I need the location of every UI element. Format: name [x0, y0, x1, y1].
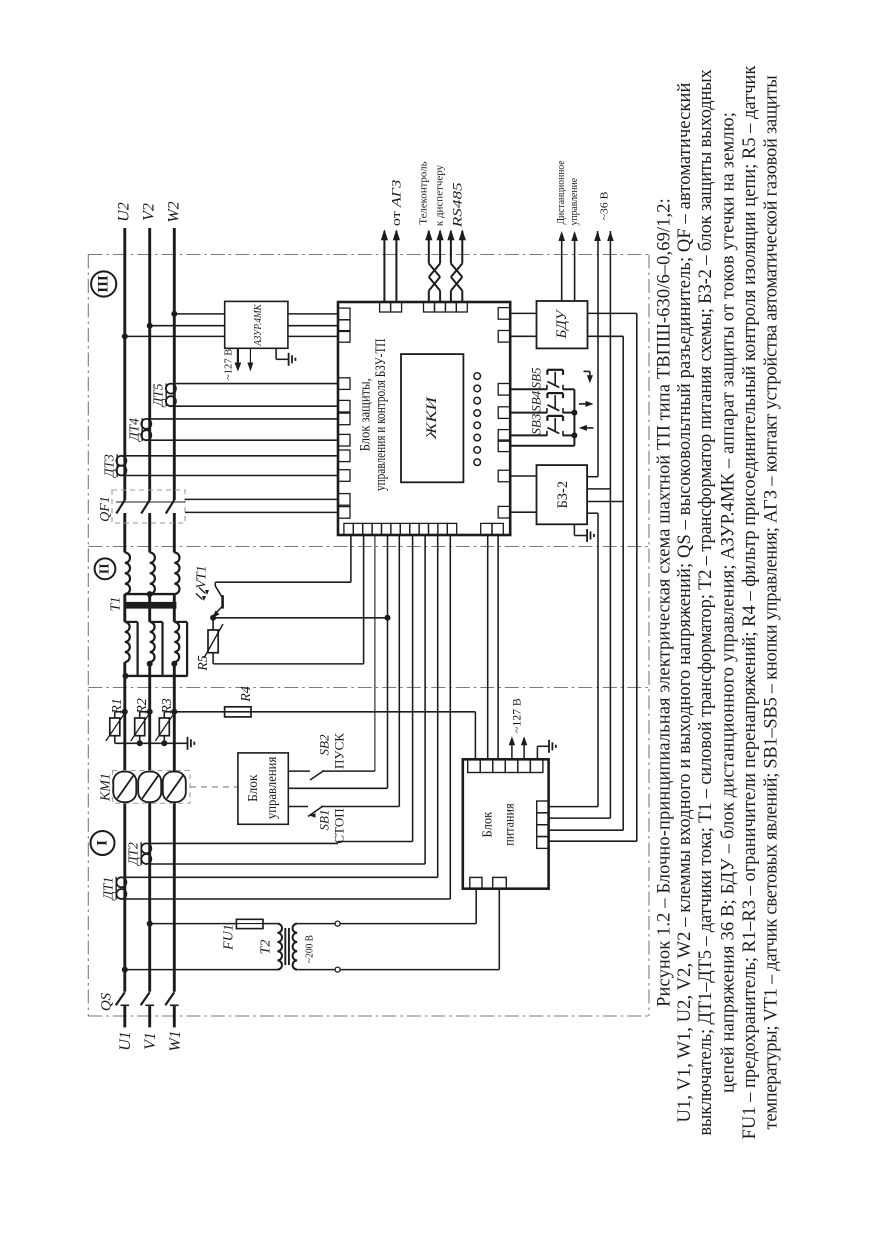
- svg-text:RS485: RS485: [449, 182, 464, 229]
- svg-text:QS: QS: [99, 992, 115, 1011]
- svg-text:U2: U2: [116, 202, 133, 222]
- svg-text:SB2: SB2: [317, 734, 332, 755]
- svg-text:БЗ-2: БЗ-2: [555, 481, 571, 509]
- svg-text:питания: питания: [503, 803, 518, 846]
- svg-text:ЖКИ: ЖКИ: [424, 396, 440, 441]
- svg-text:T1: T1: [109, 597, 124, 612]
- svg-text:SB4: SB4: [528, 390, 543, 411]
- svg-text:R4: R4: [239, 686, 254, 703]
- svg-text:ДТ2: ДТ2: [126, 842, 141, 867]
- svg-text:температуры; VT1 – датчик свет: температуры; VT1 – датчик световых явлен…: [762, 76, 782, 1130]
- svg-text:к диспетчеру: к диспетчеру: [434, 165, 445, 226]
- svg-text:от АГЗ: от АГЗ: [388, 179, 403, 226]
- svg-text:II: II: [98, 563, 113, 574]
- svg-text:R1: R1: [110, 698, 125, 715]
- svg-text:Блок защиты,: Блок защиты,: [358, 378, 374, 451]
- svg-text:цепей напряжения 36 В; БДУ –: цепей напряжения 36 В; БДУ – блок дистан…: [719, 112, 739, 1093]
- svg-text:R5: R5: [196, 655, 211, 672]
- svg-text:Телеконтроль: Телеконтроль: [419, 161, 430, 225]
- svg-text:СТОП: СТОП: [332, 808, 347, 843]
- svg-text:~127 В: ~127 В: [512, 698, 524, 733]
- svg-text:КМ1: КМ1: [99, 773, 114, 802]
- svg-text:V1: V1: [142, 1032, 159, 1050]
- svg-text:ДТ3: ДТ3: [102, 454, 117, 479]
- svg-text:SB3: SB3: [528, 413, 543, 434]
- svg-text:W2: W2: [166, 201, 183, 222]
- svg-text:W1: W1: [167, 1030, 184, 1051]
- svg-text:FU1 – предохранитель; R1–R3 –: FU1 – предохранитель; R1–R3 – ограничите…: [740, 66, 760, 1140]
- svg-text:ПУСК: ПУСК: [332, 733, 347, 769]
- svg-text:БДУ: БДУ: [554, 308, 570, 339]
- svg-text:QF1: QF1: [98, 496, 113, 522]
- svg-text:Рисунок 1.2 – Блочно-принципиа: Рисунок 1.2 – Блочно-принципиальная элек…: [655, 198, 675, 1007]
- svg-text:~36 В: ~36 В: [599, 192, 611, 221]
- svg-text:ДТ1: ДТ1: [101, 877, 116, 902]
- svg-text:~127 В: ~127 В: [223, 349, 235, 380]
- svg-text:ДТ5: ДТ5: [151, 383, 166, 408]
- svg-text:управления и контроля БЗУ-ТП: управления и контроля БЗУ-ТП: [373, 338, 389, 491]
- svg-text:FU1: FU1: [222, 924, 237, 951]
- svg-text:SB5: SB5: [528, 367, 543, 388]
- svg-text:~200 В: ~200 В: [304, 935, 316, 963]
- svg-text:управление: управление: [569, 177, 580, 225]
- svg-text:III: III: [96, 275, 112, 293]
- svg-text:VT1: VT1: [195, 565, 210, 588]
- svg-text:Дистанционное: Дистанционное: [556, 160, 567, 225]
- svg-text:управления: управления: [265, 756, 280, 819]
- svg-text:АЗУР.4МК: АЗУР.4МК: [252, 304, 264, 347]
- svg-text:V2: V2: [141, 203, 158, 221]
- svg-text:U1: U1: [117, 1031, 134, 1051]
- svg-text:T2: T2: [259, 940, 274, 955]
- svg-text:ДТ4: ДТ4: [127, 418, 142, 443]
- svg-text:выключатель; ДТ1–ДТ5 – датчики: выключатель; ДТ1–ДТ5 – датчики тока; Т1 …: [696, 68, 716, 1135]
- svg-text:Блок: Блок: [246, 774, 261, 802]
- svg-text:R3: R3: [160, 698, 175, 715]
- svg-text:R2: R2: [135, 698, 150, 715]
- svg-text:U1, V1, W1, U2, V2, W2 – клемм: U1, V1, W1, U2, V2, W2 – клеммы входного…: [675, 83, 695, 1123]
- svg-text:Блок: Блок: [480, 812, 495, 838]
- svg-text:I: I: [95, 840, 111, 846]
- svg-text:SB1: SB1: [317, 810, 332, 831]
